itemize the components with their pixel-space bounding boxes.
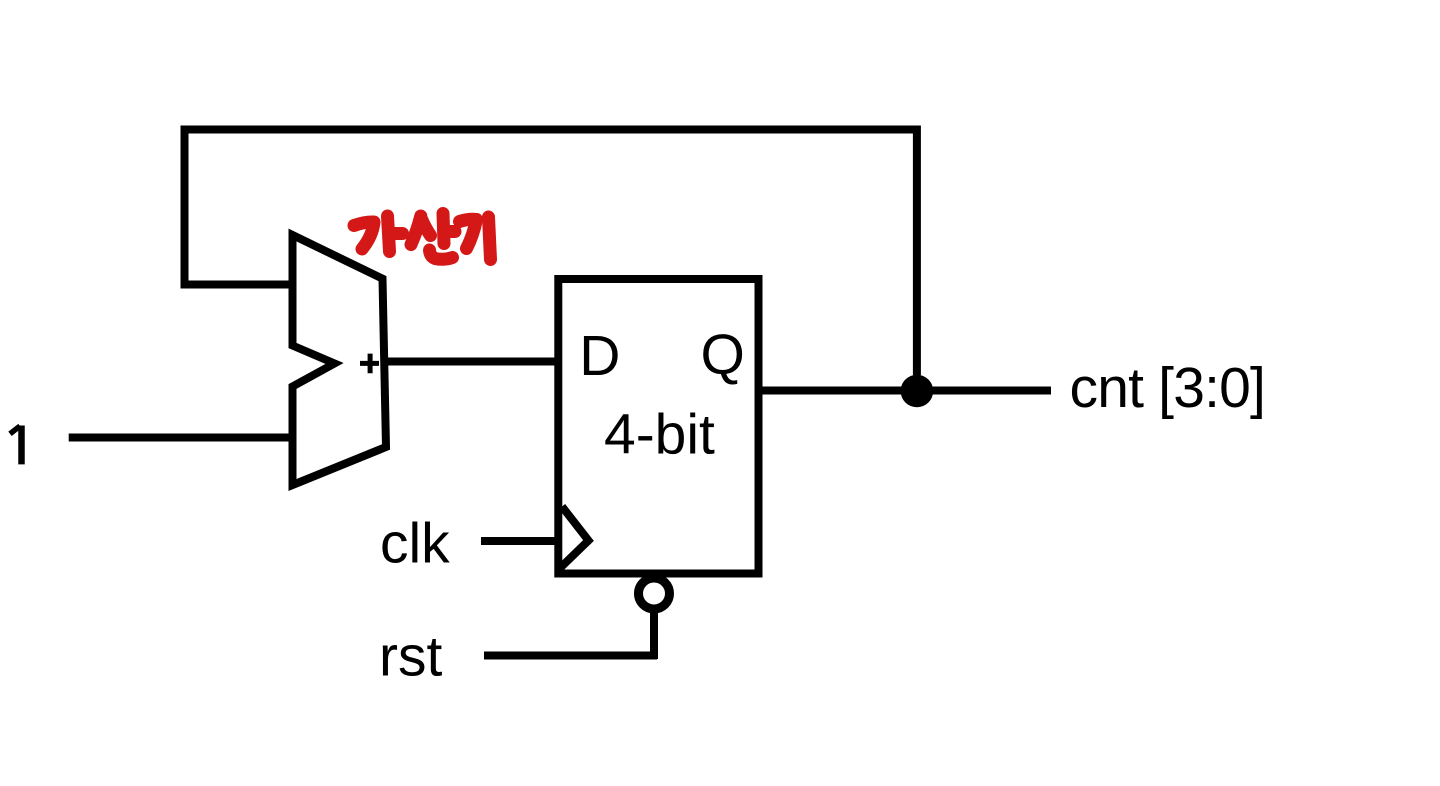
node junction dot on cnt net [901,375,934,408]
plus sign inside adder [360,354,379,374]
svg-text:rst: rst [379,625,442,689]
svg-text:Q: Q [701,323,745,387]
label 가산기 (red handwritten annotation "adder") [354,214,491,260]
syllable 가 [354,222,374,249]
register U2 (4-bit D flip-flop box) [558,279,758,574]
adder U1 (ALU trapezoid symbol) [293,235,387,485]
reset bubble (active-low) on register bottom [639,578,670,609]
wire clk input [481,537,558,545]
wire Q output to cnt node [759,387,1052,395]
wire constant 1 into adder lower input [69,434,292,442]
syllable 기 [460,219,477,248]
net label 1 [18,426,25,465]
svg-text:cnt [3:0]: cnt [3:0] [1070,356,1266,420]
wire rst input [484,609,657,659]
wire adder output to D input [382,358,560,366]
clock edge triangle on register [557,507,589,572]
svg-text:4-bit: 4-bit [604,402,715,466]
syllable 산 [411,216,421,245]
svg-text:D: D [579,324,620,388]
wire feedback loop from output node back to adder upper input [185,130,917,376]
svg-text:clk: clk [380,511,450,575]
